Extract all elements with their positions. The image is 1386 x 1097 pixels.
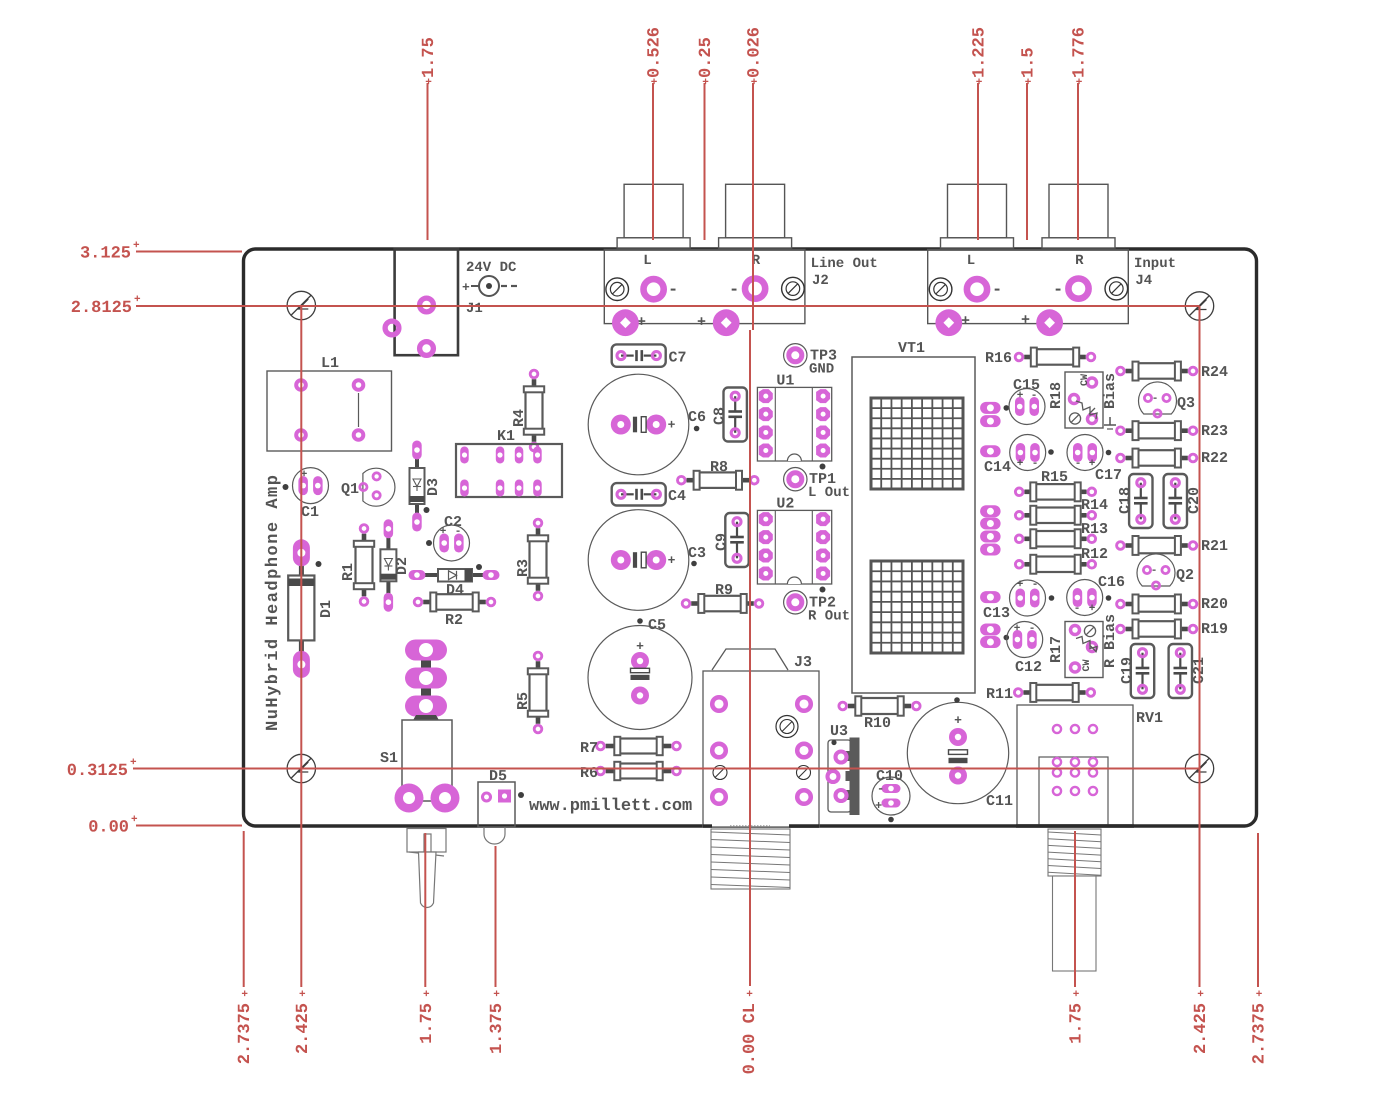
capacitor C4 bbox=[612, 483, 686, 505]
svg-text:+: + bbox=[1014, 623, 1021, 635]
svg-text:R14: R14 bbox=[1081, 497, 1108, 514]
pad U3-1 bbox=[836, 752, 847, 763]
node dot U3 bbox=[831, 740, 836, 745]
svg-text:C2: C2 bbox=[444, 514, 462, 531]
dimension 1.375 bottom bbox=[488, 846, 507, 1054]
svg-text:+: + bbox=[1017, 458, 1024, 470]
resistor R19 bbox=[1117, 620, 1228, 639]
svg-text:R22: R22 bbox=[1201, 450, 1228, 467]
capacitor C16 bbox=[1067, 574, 1125, 616]
capacitor C14 bbox=[984, 435, 1046, 477]
transformer VT1 bbox=[852, 340, 975, 693]
mounting hole top-right bbox=[1185, 292, 1213, 320]
svg-text:C1: C1 bbox=[301, 504, 319, 521]
resistor R6 bbox=[580, 762, 680, 782]
dimension 0.3125 left bbox=[67, 757, 1200, 781]
headphone jack J3 bbox=[703, 649, 819, 827]
svg-text:+: + bbox=[961, 313, 970, 330]
svg-text:+: + bbox=[1017, 579, 1024, 591]
dimension vertical right 2.425 bbox=[1199, 306, 1201, 987]
svg-text:+: + bbox=[1076, 77, 1083, 89]
svg-text:1.75: 1.75 bbox=[420, 37, 439, 78]
svg-text:+: + bbox=[668, 553, 676, 568]
node dot C3 bbox=[691, 561, 697, 567]
pad J1-3 bbox=[420, 342, 434, 356]
pad J2 R bbox=[745, 279, 765, 299]
svg-text:2.425: 2.425 bbox=[294, 1003, 313, 1054]
diode D1 bbox=[288, 539, 335, 678]
dimension 0.026 top bbox=[746, 27, 765, 330]
dimension 2.7375 bottom bbox=[1251, 833, 1270, 1064]
svg-text:0.00: 0.00 bbox=[88, 819, 129, 838]
svg-text:R12: R12 bbox=[1081, 546, 1108, 563]
svg-text:+: + bbox=[875, 799, 882, 813]
svg-text:R3: R3 bbox=[515, 559, 532, 577]
node dot D5 bbox=[518, 792, 524, 798]
svg-text:D2: D2 bbox=[394, 557, 411, 575]
test point TP1 L Out bbox=[784, 468, 850, 502]
svg-text:+: + bbox=[1073, 989, 1080, 1001]
pad S1 right bbox=[431, 784, 460, 813]
svg-text:U2: U2 bbox=[776, 495, 794, 512]
svg-text:+: + bbox=[751, 77, 758, 89]
pad J2 L+ bbox=[612, 309, 639, 336]
svg-text:+: + bbox=[133, 240, 140, 252]
svg-text:L: L bbox=[967, 253, 975, 269]
capacitor C21 bbox=[1169, 644, 1208, 698]
svg-text:R Bias: R Bias bbox=[1102, 614, 1119, 668]
svg-text:R8: R8 bbox=[710, 459, 728, 476]
svg-text:R23: R23 bbox=[1201, 423, 1228, 440]
svg-text:-: - bbox=[668, 281, 678, 300]
svg-text:-: - bbox=[1032, 579, 1039, 591]
svg-text:C13: C13 bbox=[983, 605, 1010, 622]
svg-text:R20: R20 bbox=[1201, 596, 1228, 613]
resistor R4 bbox=[511, 370, 544, 451]
svg-text:0.00 CL: 0.00 CL bbox=[741, 1003, 760, 1074]
svg-text:24V DC: 24V DC bbox=[466, 260, 517, 276]
svg-text:C19: C19 bbox=[1119, 657, 1136, 684]
svg-text:R Out: R Out bbox=[808, 608, 850, 624]
node dot D4 bbox=[476, 564, 482, 570]
svg-text:+: + bbox=[299, 989, 306, 1001]
svg-text:C4: C4 bbox=[668, 488, 686, 505]
svg-text:R18: R18 bbox=[1048, 382, 1065, 409]
svg-text:GND: GND bbox=[809, 361, 834, 377]
svg-text:J4: J4 bbox=[1135, 273, 1152, 289]
svg-text:Q3: Q3 bbox=[1177, 395, 1195, 412]
node dot C2 bbox=[426, 540, 432, 546]
svg-text:R: R bbox=[1075, 253, 1084, 269]
capacitor C6 bbox=[588, 374, 706, 475]
resistor R3 bbox=[515, 519, 548, 600]
pad S1 left bbox=[395, 784, 424, 813]
capacitor C1 bbox=[293, 468, 329, 521]
svg-text:R7: R7 bbox=[580, 740, 598, 757]
svg-text:C15: C15 bbox=[1013, 377, 1040, 394]
svg-text:D1: D1 bbox=[318, 600, 335, 618]
capacitor C9 bbox=[714, 513, 749, 567]
svg-text:-: - bbox=[1032, 458, 1039, 470]
resistor R10 bbox=[839, 696, 920, 732]
capacitor C3 bbox=[588, 510, 706, 611]
dimension 0.00 CL bottom bbox=[741, 989, 760, 1074]
svg-text:C9: C9 bbox=[714, 533, 731, 551]
dimension 1.5 top bbox=[1020, 47, 1039, 240]
svg-text:R11: R11 bbox=[986, 686, 1013, 703]
svg-text:R17: R17 bbox=[1048, 636, 1065, 663]
pad J3-1 bbox=[712, 697, 726, 711]
svg-text:+: + bbox=[976, 77, 983, 89]
screw pad J2 left bbox=[606, 278, 629, 301]
transistor Q1 bbox=[341, 468, 395, 506]
svg-text:K1: K1 bbox=[497, 428, 515, 445]
pad VT1 secondary 4 bbox=[980, 505, 1001, 517]
svg-text:+: + bbox=[493, 989, 500, 1001]
pad J4 R bbox=[1068, 279, 1088, 299]
svg-text:C12: C12 bbox=[1015, 659, 1042, 676]
pad J3-5 bbox=[712, 790, 726, 804]
pad U3-2 bbox=[828, 771, 839, 782]
resistor R5 bbox=[515, 652, 548, 733]
svg-text:C7: C7 bbox=[669, 350, 687, 367]
svg-text:-: - bbox=[1151, 565, 1158, 577]
J3 bushing below board bbox=[711, 826, 790, 889]
capacitor C20 bbox=[1164, 474, 1203, 528]
svg-text:VT1: VT1 bbox=[898, 340, 925, 357]
svg-text:0.3125: 0.3125 bbox=[67, 762, 128, 781]
svg-text:Input: Input bbox=[1134, 256, 1176, 272]
svg-text:Q2: Q2 bbox=[1176, 567, 1194, 584]
switch S1 lever below board bbox=[407, 829, 446, 908]
resistor R11 bbox=[986, 683, 1095, 703]
pad J3-4 bbox=[797, 744, 811, 758]
dimension 1.75 top bbox=[420, 37, 439, 240]
svg-text:RV1: RV1 bbox=[1136, 710, 1163, 727]
svg-text:+: + bbox=[746, 989, 753, 1001]
svg-text:R10: R10 bbox=[864, 715, 891, 732]
resistor R20 bbox=[1117, 595, 1228, 614]
svg-text:L Out: L Out bbox=[808, 485, 850, 501]
node dot D3 bbox=[424, 507, 430, 513]
svg-text:R5: R5 bbox=[515, 692, 532, 710]
dimension 2.8125 left bbox=[71, 294, 1200, 318]
resistor R21 bbox=[1117, 536, 1228, 555]
relay K1 bbox=[456, 428, 562, 497]
RV1 shaft below board bbox=[1048, 829, 1101, 971]
RCA jack J2 R bbox=[719, 184, 792, 248]
node dot C10 bbox=[888, 817, 894, 823]
svg-text:J1: J1 bbox=[466, 301, 483, 317]
node dot near C15 bbox=[1004, 405, 1010, 411]
dimension 2.425 bottom bbox=[294, 989, 313, 1054]
resistor R1 bbox=[340, 525, 374, 606]
diode D4 bbox=[409, 569, 500, 599]
RCA jack J2 L bbox=[617, 184, 690, 248]
svg-text:L: L bbox=[643, 253, 651, 269]
svg-text:CW: CW bbox=[1080, 374, 1091, 386]
svg-text:U1: U1 bbox=[776, 372, 794, 389]
pad J1-1 bbox=[420, 298, 434, 312]
svg-text:+: + bbox=[1197, 989, 1204, 1001]
resistor R8 bbox=[678, 459, 759, 490]
svg-text:Line Out: Line Out bbox=[811, 256, 878, 272]
IC U3 regulator bbox=[828, 723, 860, 815]
svg-text:-: - bbox=[729, 281, 739, 300]
svg-text:3.125: 3.125 bbox=[80, 245, 131, 264]
svg-text:+: + bbox=[636, 639, 644, 654]
pad VT1 secondary 6 bbox=[980, 531, 1001, 543]
svg-text:+: + bbox=[651, 77, 658, 89]
pad VT1 secondary 2 bbox=[980, 415, 1001, 427]
dimension vertical left 2.425 bbox=[300, 306, 302, 987]
dimension 1.75 bottom bbox=[1068, 831, 1087, 1044]
dimension 1.225 top bbox=[971, 27, 990, 240]
svg-text:+: + bbox=[697, 314, 706, 331]
dimension 2.425 bottom bbox=[1192, 989, 1211, 1054]
svg-text:CW: CW bbox=[1082, 659, 1093, 671]
svg-text:C3: C3 bbox=[688, 545, 706, 562]
mounting hole top-left bbox=[287, 291, 315, 319]
svg-text:C16: C16 bbox=[1098, 574, 1125, 591]
svg-text:J2: J2 bbox=[812, 273, 829, 289]
svg-text:+: + bbox=[1256, 989, 1263, 1001]
svg-text:-: - bbox=[992, 281, 1002, 300]
transistor Q3 bbox=[1139, 382, 1196, 417]
diode D5 LED bbox=[478, 768, 515, 844]
pad VT1 secondary 9 bbox=[980, 624, 1001, 636]
svg-text:R16: R16 bbox=[985, 350, 1012, 367]
svg-text:L1: L1 bbox=[321, 355, 339, 372]
capacitor C7 bbox=[612, 344, 687, 366]
PCB board outline bbox=[244, 249, 1257, 826]
svg-text:1.225: 1.225 bbox=[971, 27, 990, 78]
svg-text:-: - bbox=[1029, 623, 1036, 635]
svg-text:1.75: 1.75 bbox=[1068, 1003, 1087, 1044]
pad J4 R+ bbox=[1036, 309, 1063, 336]
dimension 2.7375 bottom bbox=[236, 831, 255, 1064]
capacitor C8 bbox=[712, 388, 747, 442]
node dot U2 pin bbox=[820, 587, 826, 593]
pad J3-3 bbox=[712, 744, 726, 758]
pad U3-3 bbox=[836, 790, 847, 801]
node dot C5 bbox=[637, 618, 643, 624]
RCA jack J4 R bbox=[1042, 184, 1115, 248]
test point TP3 GND bbox=[784, 344, 837, 378]
connector J4 input body bbox=[928, 250, 1176, 331]
capacitor C17 bbox=[1067, 435, 1122, 485]
svg-text:R24: R24 bbox=[1201, 364, 1228, 381]
resistor R15 bbox=[1015, 469, 1095, 501]
board edge at RV1 bbox=[1016, 824, 1134, 827]
capacitor C12 bbox=[1007, 622, 1043, 677]
pad VT1 secondary 1 bbox=[980, 402, 1001, 414]
svg-text:1.75: 1.75 bbox=[418, 1003, 437, 1044]
diode D2 bbox=[380, 519, 411, 611]
svg-text:0.25: 0.25 bbox=[697, 37, 716, 78]
pad J2 R+ bbox=[713, 309, 740, 336]
diode D3 bbox=[410, 441, 443, 532]
inductor L1 bbox=[267, 355, 392, 451]
resistor R16 bbox=[985, 348, 1095, 367]
svg-text:C11: C11 bbox=[986, 793, 1013, 810]
mounting hole bottom-left bbox=[287, 754, 315, 782]
resistor R12 bbox=[1015, 546, 1108, 574]
capacitor C5 bbox=[588, 617, 692, 730]
pad J1-2 bbox=[385, 321, 399, 335]
svg-text:1.5: 1.5 bbox=[1020, 47, 1039, 78]
svg-text:+: + bbox=[954, 713, 962, 728]
connector J2 line out body bbox=[604, 250, 878, 332]
pad J3-6 bbox=[797, 790, 811, 804]
dimension 1.776 top bbox=[1071, 27, 1090, 240]
pad VT1 secondary 8 bbox=[980, 591, 1001, 603]
node dot C17 bbox=[1106, 450, 1112, 456]
dimension centerline 0.00 CL bbox=[749, 330, 751, 986]
node dot near C12 bbox=[1004, 635, 1010, 641]
svg-text:2.8125: 2.8125 bbox=[71, 299, 132, 318]
svg-text:NuHybrid Headphone Amp: NuHybrid Headphone Amp bbox=[264, 474, 283, 731]
svg-text:U3: U3 bbox=[830, 723, 848, 740]
capacitor C10 bbox=[872, 768, 910, 815]
svg-text:Bias: Bias bbox=[1102, 373, 1119, 409]
resistor R23 bbox=[1117, 421, 1228, 440]
svg-text:R4: R4 bbox=[511, 409, 528, 427]
svg-text:+: + bbox=[1025, 77, 1032, 89]
silkscreen NuHybrid Headphone Amp bbox=[264, 474, 283, 731]
capacitor C15 bbox=[1009, 377, 1045, 425]
connector J1 power jack bbox=[395, 249, 517, 355]
capacitor C18 bbox=[1117, 474, 1153, 528]
node dot C6 bbox=[694, 426, 700, 432]
potentiometer RV1 bbox=[1017, 705, 1163, 826]
node dot C11 bbox=[954, 697, 960, 703]
silkscreen www.pmillett.com bbox=[529, 797, 692, 816]
svg-text:+: + bbox=[134, 294, 141, 306]
svg-text:J3: J3 bbox=[794, 654, 812, 671]
resistor R24 bbox=[1117, 362, 1228, 381]
IC U2 socket bbox=[757, 495, 831, 584]
trimmer R17 R Bias bbox=[1048, 614, 1119, 678]
node dot C1 bbox=[283, 484, 289, 490]
dimension 0.25 top bbox=[697, 37, 716, 240]
pad VT1 secondary 5 bbox=[980, 518, 1001, 530]
svg-text:-: - bbox=[1053, 281, 1063, 300]
svg-text:R1: R1 bbox=[340, 563, 357, 581]
svg-text:2.425: 2.425 bbox=[1192, 1003, 1211, 1054]
IC U1 socket bbox=[757, 372, 831, 461]
svg-text:S1: S1 bbox=[380, 750, 398, 767]
svg-text:+: + bbox=[241, 989, 248, 1001]
svg-text:C14: C14 bbox=[984, 459, 1011, 476]
pad J2 L bbox=[644, 279, 664, 299]
pad VT1 secondary 10 bbox=[980, 636, 1001, 648]
capacitor C11 bbox=[907, 702, 1013, 810]
svg-text:R2: R2 bbox=[445, 612, 463, 629]
svg-text:+: + bbox=[1021, 312, 1030, 329]
switch S1 bbox=[380, 640, 452, 802]
pad J4 L bbox=[967, 279, 987, 299]
resistor R14 bbox=[1015, 497, 1108, 525]
resistor R7 bbox=[580, 737, 680, 757]
transistor Q2 bbox=[1137, 554, 1194, 589]
svg-text:+: + bbox=[425, 77, 432, 89]
svg-text:+: + bbox=[131, 814, 138, 826]
dimension 1.75 bottom bbox=[418, 833, 437, 1044]
node dot C13 bbox=[1049, 595, 1055, 601]
svg-text:0.026: 0.026 bbox=[746, 27, 765, 78]
node dot C14 bbox=[1048, 449, 1054, 455]
resistor R13 bbox=[1015, 521, 1108, 548]
svg-text:C18: C18 bbox=[1117, 487, 1134, 514]
resistor R2 bbox=[414, 593, 495, 630]
resistor R9 bbox=[682, 582, 763, 613]
svg-text:R13: R13 bbox=[1081, 521, 1108, 538]
node dot D1 bbox=[316, 561, 322, 567]
svg-text:www.pmillett.com: www.pmillett.com bbox=[529, 797, 692, 816]
capacitor C2 bbox=[434, 514, 470, 561]
svg-text:R15: R15 bbox=[1041, 469, 1068, 486]
test point TP2 R Out bbox=[784, 591, 850, 625]
mounting hole bottom-right bbox=[1185, 754, 1213, 782]
dimension 3.125 left bbox=[80, 240, 242, 264]
pad VT1 secondary 7 bbox=[980, 544, 1001, 556]
screw pad J4 left bbox=[929, 278, 952, 301]
screw pad J4 right bbox=[1105, 277, 1128, 300]
svg-text:C5: C5 bbox=[648, 617, 666, 634]
dimension 0.00 left bbox=[88, 814, 242, 838]
svg-text:C8: C8 bbox=[712, 407, 729, 425]
capacitor C19 bbox=[1119, 644, 1154, 698]
trimmer R18 Bias bbox=[1048, 372, 1119, 429]
svg-text:2.7375: 2.7375 bbox=[236, 1003, 255, 1064]
svg-text:-: - bbox=[1074, 603, 1081, 615]
svg-text:C10: C10 bbox=[876, 768, 903, 785]
svg-text:+: + bbox=[130, 757, 137, 769]
svg-text:R21: R21 bbox=[1201, 538, 1228, 555]
node dot C16 bbox=[1106, 595, 1112, 601]
screw pad J2 right bbox=[782, 277, 805, 300]
svg-text:1.776: 1.776 bbox=[1071, 27, 1090, 78]
svg-text:+: + bbox=[462, 280, 470, 295]
svg-text:D3: D3 bbox=[425, 478, 442, 496]
svg-text:-: - bbox=[1075, 458, 1082, 470]
svg-text:+: + bbox=[423, 989, 430, 1001]
svg-text:C17: C17 bbox=[1095, 467, 1122, 484]
svg-text:D5: D5 bbox=[489, 768, 507, 785]
pad J4 L+ bbox=[935, 309, 962, 336]
svg-text:1.375: 1.375 bbox=[488, 1003, 507, 1054]
pad J3-2 bbox=[797, 697, 811, 711]
svg-text:R9: R9 bbox=[715, 582, 733, 599]
svg-text:Q1: Q1 bbox=[341, 481, 359, 498]
svg-text:-: - bbox=[1152, 393, 1159, 405]
capacitor C13 bbox=[983, 579, 1046, 622]
svg-text:R19: R19 bbox=[1201, 621, 1228, 638]
node dot U1 pin bbox=[820, 464, 826, 470]
svg-text:2.7375: 2.7375 bbox=[1251, 1003, 1270, 1064]
board edge at J3 bbox=[703, 824, 819, 827]
svg-text:+: + bbox=[668, 418, 676, 433]
svg-text:+: + bbox=[702, 77, 709, 89]
resistor R22 bbox=[1117, 449, 1228, 468]
svg-text:+: + bbox=[1089, 603, 1096, 615]
svg-text:0.526: 0.526 bbox=[646, 27, 665, 78]
svg-text:C6: C6 bbox=[688, 409, 706, 426]
RCA jack J4 L bbox=[941, 184, 1014, 248]
pad VT1 secondary 3 bbox=[980, 445, 1001, 457]
dimension 0.526 top bbox=[646, 27, 665, 240]
